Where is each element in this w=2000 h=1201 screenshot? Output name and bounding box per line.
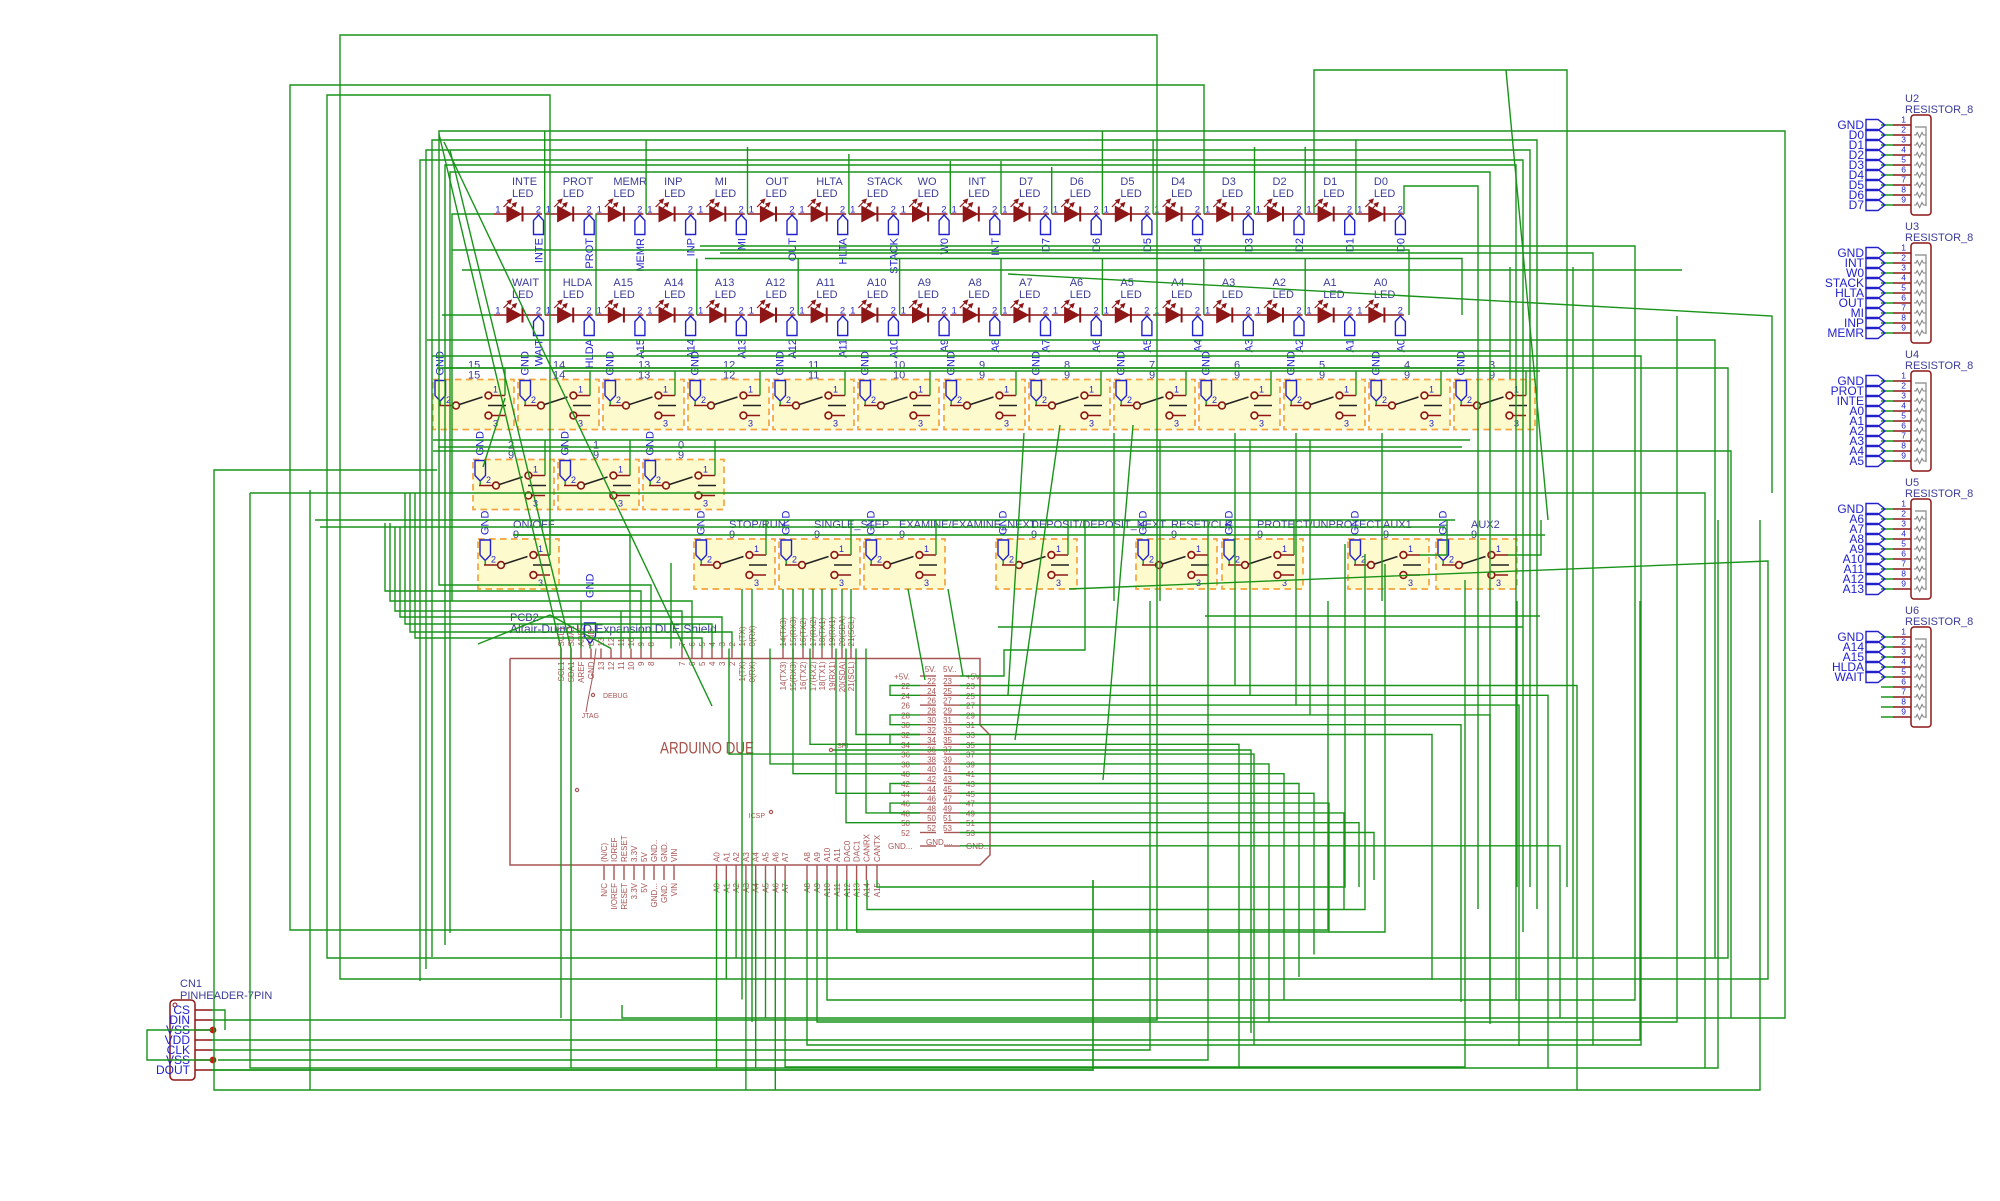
svg-text:A10: A10 [867,277,887,289]
wire [960,823,1359,887]
wire [960,744,1239,1067]
svg-text:GND: GND [585,574,597,599]
svg-text:1: 1 [1306,306,1311,317]
wire [821,589,823,649]
wire [1304,147,1306,214]
svg-text:LED: LED [512,188,533,200]
svg-text:MI: MI [736,238,748,250]
svg-text:2: 2 [941,205,946,216]
wire [960,695,1548,1068]
svg-text:16(TX2): 16(TX2) [799,661,808,690]
svg-text:53: 53 [966,829,975,838]
LED D5 [1102,176,1154,252]
svg-text:1: 1 [698,306,703,317]
svg-text:8: 8 [1901,569,1906,579]
wire [810,649,920,745]
svg-text:32: 32 [927,726,936,735]
wire [960,784,1299,978]
wire [960,520,1085,676]
LED INP [646,176,698,256]
svg-text:1: 1 [495,205,500,216]
wire [320,526,1445,528]
svg-text:2: 2 [941,306,946,317]
switch S_A4 [1369,351,1450,430]
svg-text:A11: A11 [833,848,842,862]
svg-text:2: 2 [1246,306,1251,317]
svg-text:GND: GND [645,431,657,456]
svg-text:43: 43 [966,780,975,789]
svg-text:2: 2 [786,395,791,405]
svg-text:2: 2 [1901,509,1906,519]
svg-text:2: 2 [707,555,712,565]
svg-text:23: 23 [943,677,952,686]
svg-text:39: 39 [943,755,952,764]
svg-text:2: 2 [1901,253,1906,263]
LED STACK [849,176,904,274]
LED A8 [950,277,1002,352]
svg-text:1: 1 [799,205,804,216]
svg-text:9: 9 [1901,579,1906,589]
svg-text:32: 32 [901,731,910,740]
wire [890,686,920,696]
svg-text:2: 2 [792,555,797,565]
svg-text:38: 38 [927,755,936,764]
wire [765,880,767,1018]
wire [844,371,846,396]
svg-text:WAIT: WAIT [512,277,539,289]
svg-text:2: 2 [1195,205,1200,216]
svg-text:D2: D2 [1273,176,1287,188]
LED A5 [1102,277,1154,352]
svg-text:13: 13 [597,661,606,670]
wire [1101,131,1103,214]
svg-text:2: 2 [536,205,541,216]
svg-text:9: 9 [1901,323,1906,333]
svg-text:10: 10 [627,661,636,670]
wire [747,147,749,214]
svg-text:1: 1 [1104,205,1109,216]
svg-text:42: 42 [901,780,910,789]
wire [212,880,1093,1070]
svg-text:GND: GND [998,511,1010,536]
svg-text:STACK: STACK [888,237,900,274]
svg-text:5V.: 5V. [925,665,936,674]
wire [1008,274,1772,493]
svg-text:50: 50 [927,814,936,823]
wire [427,340,1715,958]
wire [1185,371,1187,396]
svg-text:1: 1 [1002,306,1007,317]
svg-text:2: 2 [571,475,576,485]
svg-text:3: 3 [1901,391,1906,401]
svg-text:4: 4 [1901,273,1906,283]
wire [450,172,1490,1020]
wire [595,214,597,315]
svg-text:GND: GND [1201,351,1213,376]
wire [674,371,676,396]
wire [1249,440,1251,695]
switch S_A9 [944,351,1025,430]
svg-text:31: 31 [966,721,975,730]
svg-text:1: 1 [901,306,906,317]
LED OUT [748,176,800,261]
svg-text:2: 2 [536,306,541,317]
svg-text:2: 2 [891,306,896,317]
svg-text:3: 3 [924,578,929,588]
svg-text:LED: LED [1171,289,1192,301]
svg-text:RESET: RESET [620,835,629,862]
svg-text:A15: A15 [613,277,633,289]
svg-text:A13: A13 [715,277,735,289]
svg-text:VIN: VIN [670,883,679,897]
wire [735,880,737,958]
svg-text:2: 2 [992,205,997,216]
svg-text:OUT: OUT [766,176,790,188]
wire [250,493,1718,1068]
svg-text:EXAMINE/EXAMINE_NEXT: EXAMINE/EXAMINE_NEXT [899,519,1037,531]
svg-text:1: 1 [1205,205,1210,216]
wire [741,589,743,1000]
svg-text:LED: LED [918,188,939,200]
svg-text:RESISTOR_8: RESISTOR_8 [1905,616,1973,628]
wire [1008,433,1024,695]
svg-text:2: 2 [486,475,491,485]
svg-text:46: 46 [927,795,936,804]
LED A10 [849,277,901,359]
svg-text:5: 5 [1901,155,1906,165]
svg-text:1: 1 [1901,115,1906,125]
svg-text:1: 1 [533,465,538,475]
svg-text:21(SCL): 21(SCL) [847,661,856,691]
LED WAIT [494,277,546,366]
svg-text:37: 37 [966,751,975,760]
svg-text:23: 23 [966,682,975,691]
svg-text:2: 2 [1296,205,1301,216]
svg-text:40: 40 [927,765,936,774]
wire [1103,425,1133,780]
svg-text:GND: GND [946,351,958,376]
wire [410,493,732,649]
wire [948,589,963,676]
svg-text:39: 39 [966,760,975,769]
switch S_A5 [1284,351,1365,430]
wire [745,880,747,1090]
resistor network U6 [1832,605,1973,727]
svg-text:6: 6 [1901,421,1906,431]
wire [846,649,920,823]
wire [513,534,1545,536]
svg-text:1: 1 [647,205,652,216]
svg-text:GND: GND [1031,351,1043,376]
switch S_A13 [603,351,684,430]
svg-text:GND: GND [781,511,793,536]
svg-text:46: 46 [901,800,910,809]
switch STOP/RUN [694,511,786,590]
LED A14 [646,277,698,359]
svg-text:1: 1 [663,385,668,395]
svg-text:HLDA: HLDA [563,277,593,289]
LED WO [900,176,952,255]
svg-text:LED: LED [1019,188,1040,200]
svg-text:2: 2 [840,306,845,317]
svg-text:11: 11 [617,661,626,670]
wire [483,398,505,467]
wire [867,554,1365,910]
svg-text:1: 1 [952,205,957,216]
wire [426,150,1530,969]
switch S_A10 [858,351,939,430]
svg-text:3: 3 [618,499,623,509]
svg-text:2: 2 [1398,205,1403,216]
svg-text:4: 4 [1901,529,1906,539]
svg-text:1: 1 [1104,306,1109,317]
wire [1203,259,1205,316]
svg-text:1: 1 [647,306,652,317]
svg-text:29: 29 [966,711,975,720]
wire [774,880,776,1090]
wire [1000,259,1002,316]
LED MI [697,176,749,250]
svg-text:MEMR: MEMR [1827,326,1864,340]
wire [218,555,1208,1060]
svg-text:GND: GND [1286,351,1298,376]
svg-text:2: 2 [1901,637,1906,647]
LED A4 [1153,277,1205,352]
wire [395,527,682,649]
svg-text:2: 2 [586,306,591,317]
wire [785,580,1465,1067]
wire [759,371,761,396]
svg-text:GND..: GND.. [650,840,659,862]
svg-text:CANTX: CANTX [873,834,882,862]
wire [1254,147,1256,214]
wire [949,161,951,214]
svg-text:+5V.: +5V. [966,673,982,682]
svg-text:3: 3 [718,661,727,666]
wire [1440,371,1442,396]
wire [147,1030,212,1060]
svg-text:1: 1 [1256,205,1261,216]
svg-text:LED: LED [968,289,989,301]
svg-text:2: 2 [1043,205,1048,216]
svg-text:A0: A0 [713,852,722,862]
svg-text:1: 1 [1901,243,1906,253]
svg-text:2: 2 [891,205,896,216]
svg-text:1: 1 [918,385,923,395]
svg-text:1: 1 [1901,627,1906,637]
wire [960,725,1461,1002]
svg-text:3: 3 [1901,647,1906,657]
svg-text:3: 3 [1056,578,1061,588]
wire [415,493,702,649]
svg-text:LED: LED [816,188,837,200]
svg-text:24: 24 [901,692,910,701]
wire [960,793,1314,954]
svg-text:3: 3 [1901,519,1906,529]
wire [452,214,494,601]
svg-text:RESET: RESET [620,883,629,910]
svg-text:2: 2 [616,395,621,405]
wire [385,523,641,649]
wire [439,131,1785,1018]
wire [899,259,901,316]
wire [290,85,1328,930]
switch S_A1 [558,431,639,510]
wire [629,440,631,476]
svg-text:LED: LED [1323,188,1344,200]
wire [846,880,848,930]
svg-text:1: 1 [799,306,804,317]
svg-text:LED: LED [563,289,584,301]
svg-text:1: 1 [1256,306,1261,317]
wire [1207,520,1209,555]
wire [960,764,1269,1022]
svg-text:3.3V: 3.3V [630,882,639,899]
LED INTE [494,176,546,263]
svg-text:1: 1 [618,465,623,475]
wire [1314,70,1567,887]
svg-text:47: 47 [943,795,952,804]
LED D6 [1052,176,1104,252]
wire [1159,440,1161,601]
svg-text:6: 6 [1901,677,1906,687]
svg-text:44: 44 [927,785,936,794]
wire [998,626,1523,628]
wire [1205,615,1540,617]
wire [1295,433,1297,705]
LED A2 [1255,277,1307,352]
wire [1152,140,1154,214]
wire [670,563,672,649]
wire [960,735,1432,981]
svg-text:GND: GND [560,431,572,456]
svg-text:I/OREF: I/OREF [610,883,619,910]
svg-text:3: 3 [1196,578,1201,588]
resistor network U2 [1837,93,1973,215]
svg-text:4: 4 [708,661,717,666]
wire [1516,601,1518,887]
svg-text:2: 2 [1009,555,1014,565]
svg-text:HLDA: HLDA [584,338,596,368]
svg-text:LED: LED [1222,188,1243,200]
wire [1355,371,1357,396]
svg-text:2: 2 [957,395,962,405]
LED A0 [1356,277,1408,352]
svg-text:D3: D3 [1222,176,1236,188]
wire [890,803,920,813]
svg-text:2: 2 [1127,395,1132,405]
svg-text:GND: GND [605,351,617,376]
svg-text:14(TX3): 14(TX3) [779,661,788,690]
LED D0 [1356,176,1408,252]
svg-text:5V: 5V [640,882,649,892]
wire [1572,267,1574,958]
ground flag (arduino GND pin) [585,574,597,649]
svg-text:LED: LED [1273,289,1294,301]
wire [960,833,1374,881]
svg-text:1: 1 [1901,371,1906,381]
svg-text:A12: A12 [766,277,786,289]
wire [438,446,1462,448]
svg-text:VIN: VIN [670,848,679,862]
wire [1101,259,1103,316]
svg-text:2: 2 [688,205,693,216]
wire [836,880,838,930]
svg-text:2: 2 [871,395,876,405]
wire [544,131,546,214]
svg-text:2: 2 [531,395,536,405]
svg-text:45: 45 [966,790,975,799]
svg-text:1: 1 [1496,544,1501,554]
svg-text:WO: WO [918,176,937,188]
svg-text:9: 9 [1901,707,1906,717]
svg-text:3.3V: 3.3V [630,845,639,862]
svg-text:A14: A14 [664,277,684,289]
wire [841,589,843,649]
svg-text:CN1: CN1 [180,978,202,990]
svg-text:A7: A7 [781,852,790,862]
LED HLTA [798,176,850,265]
svg-text:6: 6 [1901,293,1906,303]
wire [960,686,1577,1091]
wire [890,715,920,725]
svg-text:52: 52 [901,829,910,838]
svg-text:2: 2 [1144,306,1149,317]
svg-text:51: 51 [966,819,975,828]
wire [1067,520,1069,555]
wire [866,649,920,813]
svg-text:3: 3 [1496,578,1501,588]
svg-text:A8: A8 [968,277,981,289]
wire [212,35,1768,1020]
wire [315,519,1455,521]
switch S_A2 [473,431,554,510]
wire [850,520,852,555]
svg-text:2: 2 [1246,205,1251,216]
wire [696,259,698,316]
svg-text:PROTECT/UNPROTECT: PROTECT/UNPROTECT [1257,519,1381,531]
svg-text:RESISTOR_8: RESISTOR_8 [1905,104,1973,116]
svg-text:2: 2 [688,306,693,317]
wire [640,350,1510,352]
svg-text:50: 50 [901,819,910,828]
wire [720,253,1593,1045]
svg-text:31: 31 [943,716,952,725]
svg-text:4: 4 [1901,657,1906,667]
svg-text:2: 2 [789,205,794,216]
svg-text:2: 2 [1901,125,1906,135]
svg-text:2: 2 [1144,205,1149,216]
svg-text:6: 6 [1901,165,1906,175]
wire [214,470,1760,1090]
svg-text:53: 53 [943,824,952,833]
svg-text:9: 9 [1901,451,1906,461]
svg-text:A5: A5 [1849,454,1864,468]
wire [645,140,647,214]
wire [1404,186,1478,909]
wire [833,750,1251,1033]
svg-text:2: 2 [877,555,882,565]
wire [442,367,1490,369]
svg-text:25: 25 [943,687,952,696]
svg-text:LED: LED [766,188,787,200]
svg-text:A5: A5 [1120,277,1133,289]
svg-text:49: 49 [943,804,952,813]
svg-text:LED: LED [1019,289,1040,301]
wire [1509,267,1511,379]
svg-text:26: 26 [901,702,910,711]
wire [812,589,814,649]
